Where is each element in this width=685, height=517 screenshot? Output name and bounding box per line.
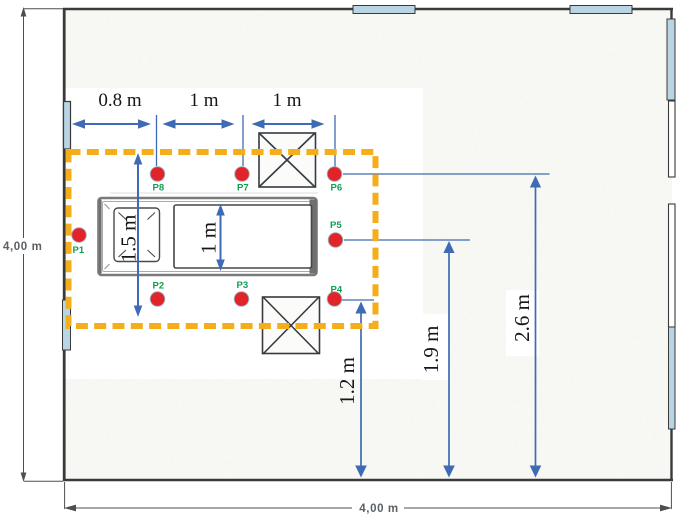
bed frame miter mark bottom-left — [105, 264, 110, 269]
dim 2.6 m vertical line — [535, 181, 537, 468]
dim 1 m arrow (first) — [170, 123, 227, 125]
extension line P6 — [334, 115, 336, 167]
svg-text:P8: P8 — [153, 183, 165, 194]
svg-text:1.9 m: 1.9 m — [419, 326, 443, 374]
svg-text:1.2 m: 1.2 m — [335, 357, 359, 405]
svg-text:P6: P6 — [331, 183, 343, 194]
bed frame left bar — [99, 200, 102, 274]
bed frame outer — [99, 198, 317, 275]
wall top — [63, 8, 673, 11]
svg-text:4,00 m: 4,00 m — [359, 503, 398, 515]
svg-text:P7: P7 — [237, 183, 249, 194]
dashed measurement zone rectangle — [69, 152, 376, 326]
dimension line left 4,00 m — [24, 9, 64, 482]
connector line P6 right — [343, 173, 550, 175]
pillow corner mark top-left — [119, 213, 127, 220]
dimension line bottom 4,00 m — [65, 482, 672, 509]
white label patch 2.6m — [506, 290, 539, 356]
window top 2 — [570, 6, 632, 14]
point P7 — [235, 167, 250, 182]
white label patch 1.9m — [420, 314, 449, 380]
svg-text:P5: P5 — [330, 220, 342, 231]
svg-text:P3: P3 — [237, 280, 249, 291]
dim 1 m arrow (second) — [259, 123, 317, 125]
dim 1.2 m vertical line — [360, 306, 362, 468]
faint shelf line above bed — [110, 192, 318, 194]
svg-text:P1: P1 — [73, 245, 85, 256]
mattress — [174, 205, 312, 268]
table top with X — [259, 133, 316, 187]
pillow corner mark bottom-left — [119, 250, 127, 257]
pillow corner mark bottom-right — [148, 250, 156, 257]
arrowhead bottom-dim left — [64, 505, 76, 512]
wall left — [63, 8, 66, 481]
window top 1 — [353, 6, 415, 14]
table bottom with X — [263, 297, 320, 354]
point P6 — [327, 167, 342, 182]
point P3 — [234, 292, 249, 307]
connector line P4 right — [342, 299, 374, 301]
bed frame miter mark top-left — [105, 204, 110, 209]
right wall white panel upper — [669, 101, 676, 177]
svg-text:P4: P4 — [331, 285, 343, 296]
svg-text:4,00 m: 4,00 m — [3, 241, 42, 253]
svg-text:0.8 m: 0.8 m — [98, 90, 142, 111]
wall right lower segment — [670, 429, 672, 481]
extension line P7 — [242, 115, 244, 166]
bed frame inner line — [103, 202, 313, 272]
arrowhead left-dim top — [21, 7, 27, 17]
open door leaf (white panel) — [669, 204, 676, 327]
svg-text:1 m: 1 m — [197, 222, 221, 254]
white overlay panel — [64, 88, 423, 379]
point P1 — [72, 228, 87, 243]
window right upper — [667, 19, 675, 100]
dim 1 m vertical arrow (mattress) — [220, 211, 222, 264]
svg-text:1 m: 1 m — [272, 90, 301, 111]
point P8 — [150, 167, 165, 182]
point P2 — [150, 292, 165, 307]
svg-text:2.6 m: 2.6 m — [510, 294, 534, 342]
pillow — [114, 208, 160, 262]
bed frame right bar — [310, 200, 317, 274]
svg-text:1 m: 1 m — [189, 90, 218, 111]
arrowhead bottom-dim right — [660, 505, 672, 512]
window right lower — [669, 327, 676, 429]
window left upper — [64, 102, 71, 150]
svg-text:P2: P2 — [153, 281, 165, 292]
point P5 — [328, 233, 343, 248]
dim 1.9 m vertical line — [448, 245, 450, 468]
wall bottom — [63, 479, 673, 481]
dim 1.5 m vertical arrow — [137, 160, 139, 310]
arrowhead left-dim bottom — [21, 473, 27, 483]
svg-text:1.5 m: 1.5 m — [117, 215, 141, 263]
window left lower — [63, 300, 71, 350]
connector line P5 right — [344, 239, 470, 241]
dim 0.8 m arrow — [80, 123, 143, 125]
wall right top stub — [670, 8, 672, 22]
point P4 — [327, 292, 342, 307]
extension line P8 — [156, 115, 158, 166]
pillow corner mark top-right — [148, 213, 156, 220]
